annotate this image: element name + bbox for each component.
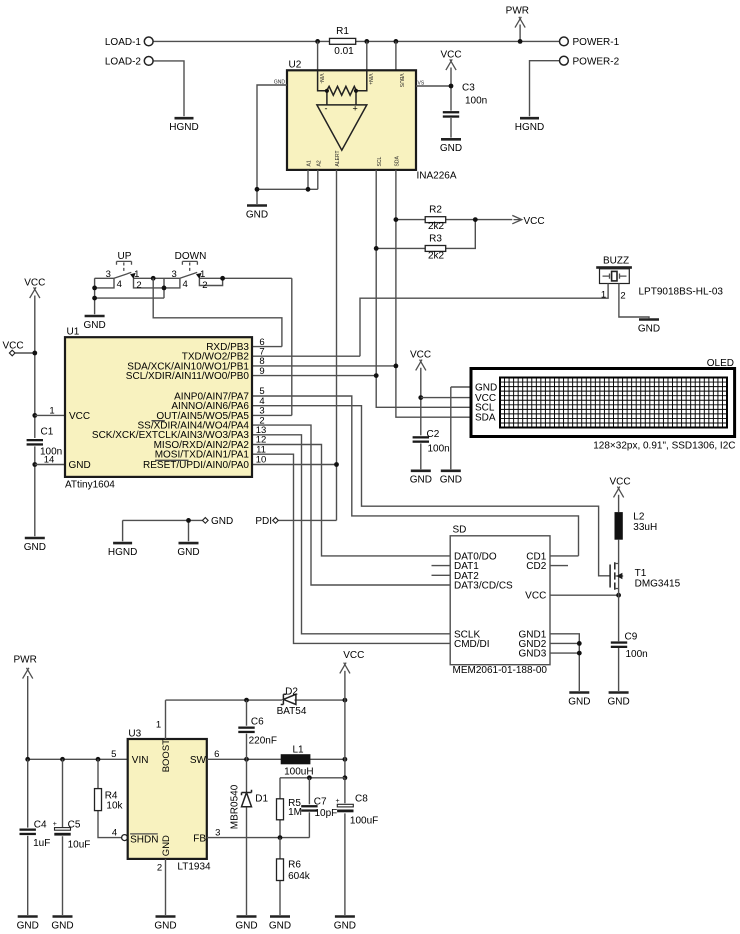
svg-text:VCC: VCC bbox=[525, 591, 546, 602]
svg-text:4: 4 bbox=[117, 279, 122, 290]
svg-text:VCC: VCC bbox=[24, 278, 45, 289]
svg-text:CMD/DI: CMD/DI bbox=[454, 639, 490, 650]
svg-text:LPT9018BS-HL-03: LPT9018BS-HL-03 bbox=[639, 286, 724, 297]
svg-text:R2: R2 bbox=[429, 205, 442, 216]
svg-text:FB: FB bbox=[193, 833, 206, 844]
svg-text:VCC: VCC bbox=[609, 476, 630, 487]
svg-text:C9: C9 bbox=[625, 632, 638, 643]
svg-text:3: 3 bbox=[106, 269, 111, 280]
svg-text:VIN-: VIN- bbox=[318, 74, 324, 84]
svg-text:U1: U1 bbox=[67, 327, 80, 338]
svg-text:C3: C3 bbox=[462, 82, 475, 93]
svg-text:VCC: VCC bbox=[69, 411, 90, 422]
svg-text:+: + bbox=[353, 104, 358, 114]
svg-text:SHDN: SHDN bbox=[130, 834, 158, 845]
svg-text:2k2: 2k2 bbox=[428, 251, 445, 262]
svg-text:DAT3/CD/CS: DAT3/CD/CS bbox=[454, 581, 513, 592]
svg-text:MBR0540: MBR0540 bbox=[229, 784, 240, 829]
svg-text:PWR: PWR bbox=[506, 5, 529, 16]
svg-text:VCC: VCC bbox=[524, 216, 545, 227]
svg-text:D2: D2 bbox=[285, 687, 298, 698]
svg-text:C4: C4 bbox=[34, 819, 47, 830]
svg-text:CD2: CD2 bbox=[526, 561, 546, 572]
svg-text:A1: A1 bbox=[307, 160, 313, 166]
svg-text:VCC: VCC bbox=[410, 350, 431, 361]
svg-text:U2: U2 bbox=[289, 60, 302, 71]
svg-text:GND: GND bbox=[161, 835, 172, 856]
svg-text:LOAD-2: LOAD-2 bbox=[105, 57, 142, 68]
svg-text:1: 1 bbox=[200, 269, 205, 280]
svg-text:10uF: 10uF bbox=[68, 839, 91, 850]
svg-text:OLED: OLED bbox=[707, 358, 734, 369]
svg-text:1M: 1M bbox=[288, 807, 302, 818]
svg-text:RESET/UPDI/AIN0/PA0: RESET/UPDI/AIN0/PA0 bbox=[143, 460, 249, 471]
svg-text:14: 14 bbox=[44, 455, 55, 466]
svg-text:SDA: SDA bbox=[475, 413, 496, 424]
svg-text:3: 3 bbox=[172, 269, 177, 280]
svg-text:LOAD-1: LOAD-1 bbox=[105, 37, 142, 48]
svg-text:UP: UP bbox=[118, 251, 132, 262]
svg-text:MEM2061-01-188-00: MEM2061-01-188-00 bbox=[453, 665, 548, 676]
svg-text:SD: SD bbox=[453, 525, 467, 536]
svg-text:1: 1 bbox=[601, 289, 606, 300]
svg-text:VIN: VIN bbox=[132, 755, 149, 766]
svg-text:C6: C6 bbox=[251, 717, 264, 728]
svg-text:C1: C1 bbox=[41, 427, 54, 438]
svg-text:GND: GND bbox=[475, 382, 497, 393]
svg-text:U3: U3 bbox=[128, 728, 141, 739]
svg-text:GND3: GND3 bbox=[519, 649, 547, 660]
svg-text:BOOST: BOOST bbox=[161, 739, 172, 772]
svg-text:10: 10 bbox=[256, 455, 267, 466]
svg-text:1: 1 bbox=[134, 269, 139, 280]
svg-text:1: 1 bbox=[49, 406, 54, 417]
svg-text:C7: C7 bbox=[314, 796, 327, 807]
svg-text:4: 4 bbox=[112, 828, 117, 839]
svg-text:SDA: SDA bbox=[395, 156, 401, 167]
svg-text:2k2: 2k2 bbox=[428, 221, 445, 232]
svg-text:T1: T1 bbox=[635, 568, 647, 579]
svg-text:0.01: 0.01 bbox=[334, 46, 354, 57]
svg-text:R1: R1 bbox=[336, 26, 349, 37]
svg-text:PWR: PWR bbox=[14, 655, 37, 666]
svg-text:BUZZ: BUZZ bbox=[603, 256, 629, 267]
svg-text:2: 2 bbox=[157, 863, 162, 874]
svg-text:A2: A2 bbox=[316, 160, 322, 166]
svg-text:C2: C2 bbox=[427, 429, 440, 440]
svg-text:SCL/XDIR/AIN11/WO0/PB0: SCL/XDIR/AIN11/WO0/PB0 bbox=[126, 371, 250, 382]
svg-text:2: 2 bbox=[620, 290, 625, 301]
svg-text:100n: 100n bbox=[428, 444, 450, 455]
svg-text:ALERT: ALERT bbox=[335, 150, 341, 166]
svg-text:POWER-2: POWER-2 bbox=[573, 57, 620, 68]
svg-text:-: - bbox=[325, 104, 328, 114]
svg-text:SW: SW bbox=[190, 755, 207, 766]
svg-text:L1: L1 bbox=[293, 744, 305, 755]
svg-text:SCL: SCL bbox=[377, 157, 383, 167]
svg-text:D1: D1 bbox=[255, 794, 268, 805]
svg-text:100n: 100n bbox=[626, 649, 648, 660]
svg-text:DOWN: DOWN bbox=[175, 251, 207, 262]
svg-text:220nF: 220nF bbox=[249, 736, 277, 747]
svg-text:1: 1 bbox=[156, 720, 161, 731]
svg-text:VCC: VCC bbox=[3, 340, 24, 351]
svg-text:POWER-1: POWER-1 bbox=[573, 37, 620, 48]
svg-text:ATtiny1604: ATtiny1604 bbox=[65, 480, 115, 491]
svg-text:R3: R3 bbox=[429, 233, 442, 244]
svg-text:VCC: VCC bbox=[440, 50, 461, 61]
svg-text:BAT54: BAT54 bbox=[277, 706, 307, 717]
svg-text:INA226A: INA226A bbox=[417, 171, 457, 182]
svg-text:LT1934: LT1934 bbox=[177, 862, 211, 873]
svg-text:4: 4 bbox=[183, 279, 188, 290]
svg-text:100uF: 100uF bbox=[350, 816, 378, 827]
svg-text:6: 6 bbox=[214, 749, 219, 760]
svg-text:GND: GND bbox=[211, 516, 233, 527]
svg-text:10k: 10k bbox=[106, 801, 123, 812]
svg-text:C5: C5 bbox=[68, 819, 81, 830]
svg-text:C8: C8 bbox=[355, 794, 368, 805]
svg-text:1uF: 1uF bbox=[33, 838, 50, 849]
svg-text:2: 2 bbox=[136, 280, 141, 291]
svg-text:VBUS: VBUS bbox=[398, 74, 404, 88]
svg-text:9: 9 bbox=[259, 366, 264, 377]
svg-text:33uH: 33uH bbox=[633, 522, 657, 533]
svg-text:2: 2 bbox=[202, 280, 207, 291]
svg-text:DMG3415: DMG3415 bbox=[635, 579, 681, 590]
svg-text:604k: 604k bbox=[288, 871, 311, 882]
svg-text:PDI: PDI bbox=[255, 516, 272, 527]
svg-text:100n: 100n bbox=[465, 96, 487, 107]
svg-text:GND: GND bbox=[69, 460, 91, 471]
svg-text:VCC: VCC bbox=[343, 650, 364, 661]
svg-text:R6: R6 bbox=[288, 860, 301, 871]
svg-text:5: 5 bbox=[111, 749, 116, 760]
svg-text:VIN+: VIN+ bbox=[367, 74, 373, 85]
svg-text:128×32px, 0.91", SSD1306, I2C: 128×32px, 0.91", SSD1306, I2C bbox=[593, 440, 735, 451]
svg-text:10pF: 10pF bbox=[315, 808, 338, 819]
svg-text:L2: L2 bbox=[633, 512, 645, 523]
